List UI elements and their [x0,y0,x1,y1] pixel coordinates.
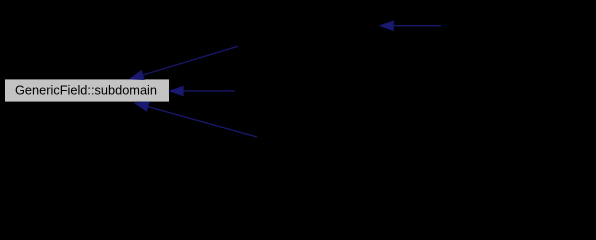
edge 1: caller (upper right) to GenericField::subdomain, arrowhead at box top [130,46,238,79]
node GenericField::subdomain [5,79,169,101]
edge 3: caller (lower right) to GenericField::subdomain, arrowhead at box bottom [135,102,257,137]
edge 2: caller (right) to GenericField::subdomain, horizontal arrow at box right [170,86,235,95]
edge 4: top-right horizontal arrow between two hidden nodes [380,21,441,30]
svg-text:GenericField::subdomain: GenericField::subdomain [15,84,157,98]
